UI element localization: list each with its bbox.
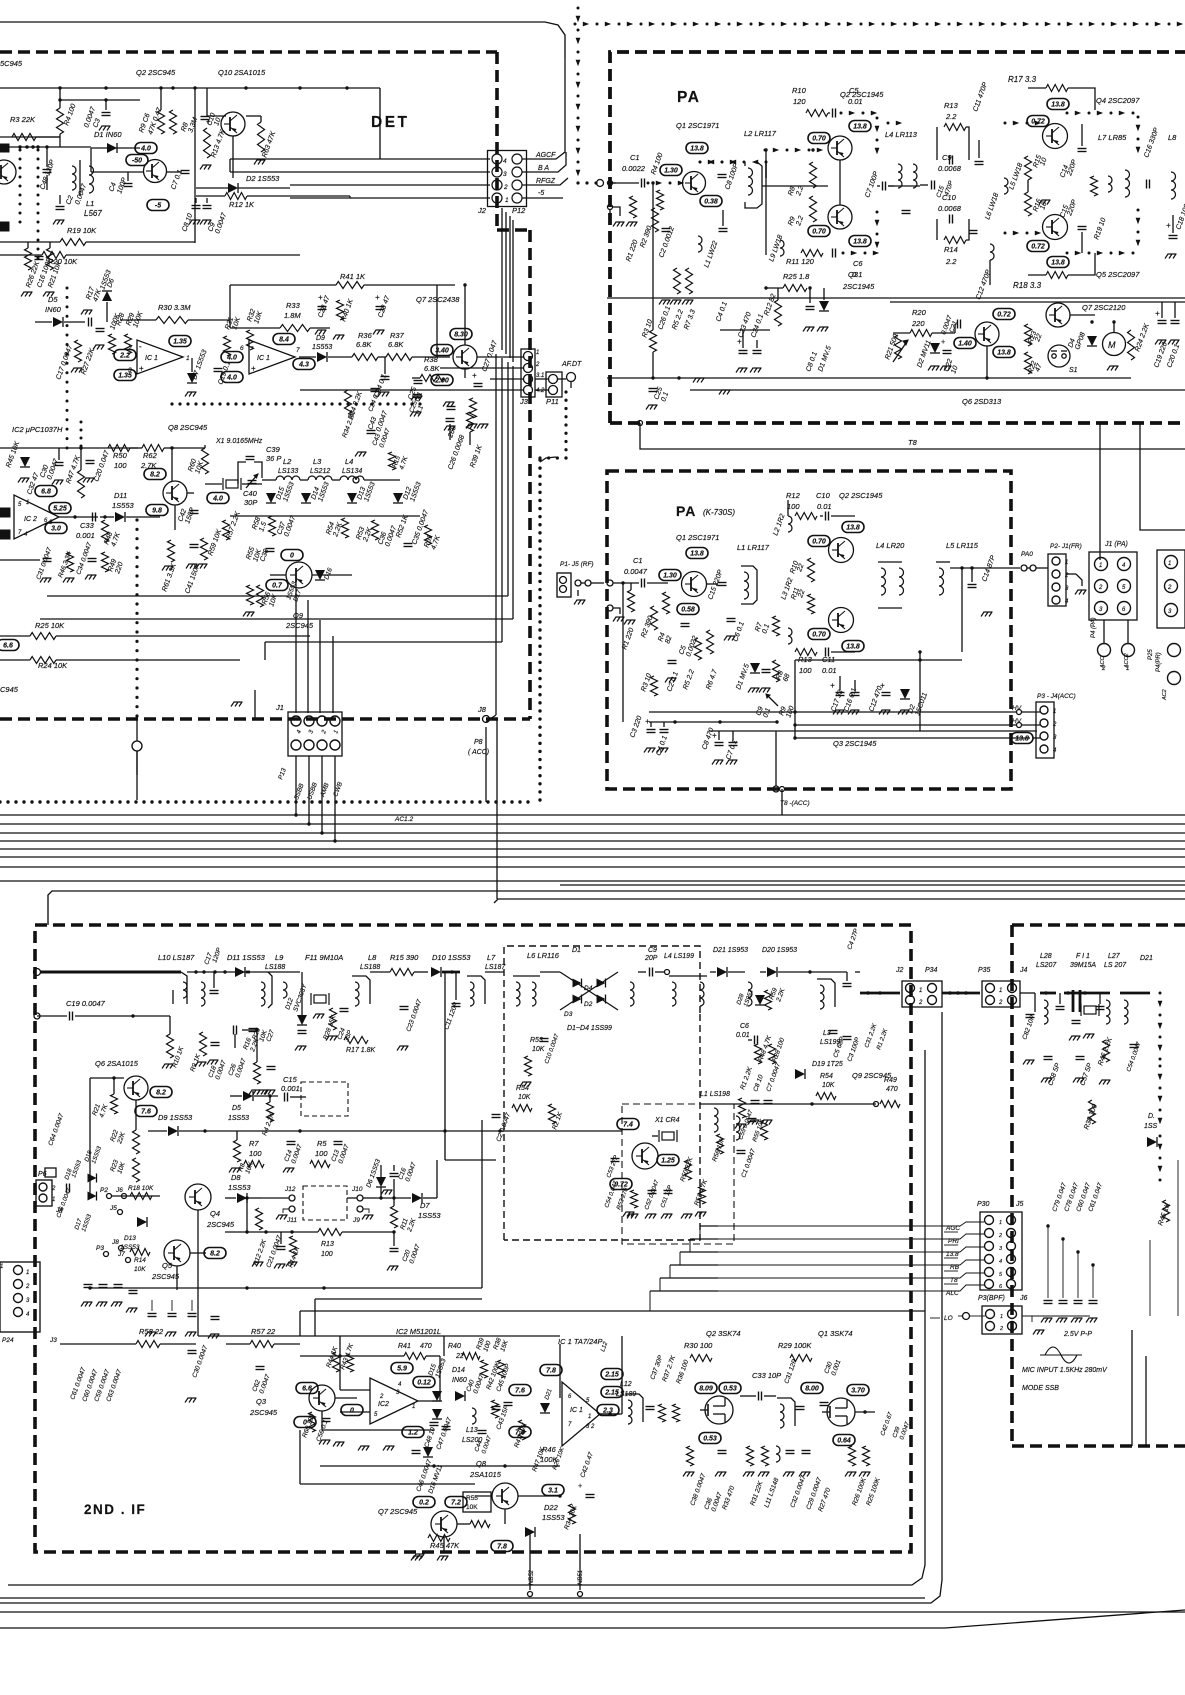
BPF block border bottom [1012, 1444, 1185, 1448]
res ladder fet [687, 1446, 694, 1466]
arrow to q5 [1004, 232, 1007, 235]
IC1 triangle [562, 1382, 600, 1446]
svg-text:D2 MV11: D2 MV11 [916, 339, 932, 368]
svg-text:AGCF: AGCF [535, 152, 556, 159]
svg-text:D19 1T25: D19 1T25 [812, 1061, 843, 1068]
DET block border right lower [528, 230, 532, 719]
svg-text:C32 47: C32 47 [26, 471, 41, 496]
svg-text:D1~D4 1SS99: D1~D4 1SS99 [567, 1025, 612, 1032]
svg-text:J3: J3 [49, 1337, 57, 1344]
svg-text:0.53: 0.53 [703, 1436, 717, 1443]
svg-text:2: 2 [1101, 666, 1106, 672]
svg-text:7.6: 7.6 [515, 1388, 525, 1395]
svg-text:2: 2 [321, 729, 328, 736]
arrow q4 out [1066, 112, 1069, 115]
wire bus [0, 814, 1185, 816]
svg-text:R36: R36 [358, 331, 373, 340]
svg-text:1S553: 1S553 [282, 481, 296, 503]
wire bus [0, 848, 1185, 850]
svg-text:AC1.2: AC1.2 [394, 816, 413, 823]
svg-text:268: 268 [447, 425, 458, 439]
value oval 1.30pa [660, 165, 682, 176]
connector J2 P12 [488, 151, 527, 207]
svg-text:1SS53: 1SS53 [81, 1213, 93, 1233]
value oval 31 [542, 1485, 564, 1496]
IC2 opamp [14, 495, 59, 539]
wire to J2 -5 [290, 195, 350, 197]
svg-text:8.4: 8.4 [279, 337, 289, 344]
diode D8b [237, 1193, 247, 1203]
tank L3if [820, 985, 824, 1009]
svg-text:-5: -5 [155, 203, 161, 210]
svg-text:0.0047: 0.0047 [258, 1373, 272, 1394]
svg-text:0: 0 [290, 553, 294, 560]
svg-text:J4: J4 [1019, 967, 1028, 974]
svg-text:+: + [375, 293, 380, 302]
value oval 070k2 [808, 629, 830, 640]
svg-text:LS212: LS212 [310, 468, 330, 475]
wire q6 col [89, 1078, 91, 1193]
value oval 8.4 [273, 334, 295, 345]
svg-text:Q10 2SA1015: Q10 2SA1015 [218, 68, 266, 77]
value oval 140 [954, 338, 976, 349]
svg-text:13.8: 13.8 [690, 146, 704, 153]
wire bus [0, 856, 1185, 858]
wire det top [0, 87, 230, 89]
svg-text:0.001: 0.001 [281, 1084, 300, 1093]
svg-text:R2 390: R2 390 [640, 615, 654, 639]
value oval 5.25 [49, 503, 71, 514]
wires P30 [718, 1222, 984, 1226]
svg-text:C8 100P: C8 100P [724, 162, 740, 190]
caps row left [84, 1284, 93, 1286]
svg-text:0.70: 0.70 [812, 632, 826, 639]
wire det right v [436, 285, 438, 357]
svg-text:LS188: LS188 [360, 964, 380, 971]
svg-text:GP08: GP08 [1074, 331, 1087, 350]
svg-text:P4(PR): P4(PR) [1156, 652, 1162, 672]
svg-text:0.0047: 0.0047 [624, 567, 648, 576]
svg-text:R37: R37 [390, 331, 405, 340]
wire pa long [607, 297, 1185, 299]
svg-text:0.001: 0.001 [830, 1359, 842, 1377]
wire bpf right col [1131, 1330, 1133, 1446]
svg-text:F I 1: F I 1 [1076, 953, 1090, 960]
gnd amp row [333, 1442, 336, 1447]
res pair pa [674, 268, 681, 294]
svg-text:1: 1 [1053, 709, 1056, 715]
IC2 triangle [370, 1378, 418, 1424]
svg-text:0.01: 0.01 [817, 502, 832, 511]
svg-text:C16 330P: C16 330P [1143, 127, 1160, 159]
svg-text:+: + [251, 364, 256, 373]
diode D11 [235, 967, 245, 977]
svg-text:8.09: 8.09 [699, 1386, 713, 1393]
svg-text:2.15: 2.15 [604, 1390, 619, 1397]
ring diodes [560, 972, 618, 1010]
wire long h642 [265, 641, 502, 643]
svg-text:Q7 2SC2120: Q7 2SC2120 [1082, 303, 1126, 312]
svg-text:R9 1K: R9 1K [189, 1053, 202, 1073]
wire fan stagger [650, 1290, 718, 1292]
wire det top ext [230, 87, 380, 89]
value oval 215a [601, 1369, 623, 1380]
wire down j1 [295, 580, 297, 713]
wire k mid [649, 721, 777, 723]
svg-text:Q1 2SC1971: Q1 2SC1971 [676, 533, 719, 542]
value oval 138d [1047, 99, 1069, 110]
value oval 053a [719, 1383, 741, 1394]
svg-text:C33 10P: C33 10P [752, 1371, 781, 1380]
svg-text:13.8: 13.8 [1015, 736, 1029, 743]
svg-text:RFGZ: RFGZ [536, 178, 556, 185]
svg-text:6.8K: 6.8K [424, 364, 440, 373]
svg-text:R3 10: R3 10 [640, 673, 653, 693]
svg-text:2SC945: 2SC945 [285, 621, 314, 630]
svg-text:0.01: 0.01 [736, 1032, 750, 1039]
value oval 2.2 [114, 350, 136, 361]
diode D10 [431, 967, 441, 977]
svg-text:LS207: LS207 [1036, 962, 1057, 969]
wire k q3line [709, 730, 1037, 732]
svg-text:R19 10: R19 10 [1093, 217, 1107, 241]
svg-text:D1 MV.5: D1 MV.5 [817, 345, 833, 373]
svg-text:C31 0.0047: C31 0.0047 [35, 546, 53, 580]
gnd k out [981, 612, 984, 617]
svg-text:P2- J1(FR): P2- J1(FR) [1050, 543, 1082, 550]
wire bus [0, 823, 1185, 825]
svg-text:3: 3 [1053, 735, 1057, 741]
PA block border [610, 52, 1185, 423]
wire amp h3 [322, 1429, 434, 1431]
value oval 4.0d [207, 493, 229, 504]
node T8 [638, 421, 643, 426]
svg-text:C42 0.47: C42 0.47 [579, 1451, 595, 1479]
wire misc right [1099, 423, 1101, 470]
svg-text:R18 10K: R18 10K [128, 1185, 154, 1192]
svg-text:+: + [830, 681, 835, 690]
svg-text:M: M [1108, 340, 1116, 350]
svg-text:R1 2.2K: R1 2.2K [739, 1066, 754, 1091]
svg-text:R10: R10 [792, 86, 807, 95]
svg-text:R2 390: R2 390 [639, 225, 653, 249]
value oval 070b [808, 226, 830, 237]
svg-text:C11 120P: C11 120P [443, 1001, 460, 1031]
svg-text:0.0022: 0.0022 [622, 164, 646, 173]
svg-text:R7: R7 [249, 1139, 259, 1148]
pin if left [34, 969, 41, 976]
svg-text:IC 1 TA7/24P: IC 1 TA7/24P [558, 1337, 602, 1346]
svg-text:R59 10K: R59 10K [207, 528, 223, 556]
value oval 072c [993, 309, 1015, 320]
svg-text:P25: P25 [1148, 649, 1154, 660]
svg-text:-: - [251, 342, 254, 351]
svg-text:470: 470 [886, 1086, 898, 1093]
wire shielded bus mid [0, 800, 2, 803]
wire det bottom v [254, 690, 256, 719]
terminal box [0, 144, 9, 152]
svg-text:T8: T8 [908, 438, 918, 447]
svg-text:D3: D3 [564, 1011, 573, 1018]
wire to J2 RFGZ [290, 184, 490, 186]
wire j1 bus drop [295, 800, 297, 815]
wire amp h2 [418, 1400, 440, 1402]
svg-text:IN60: IN60 [452, 1377, 467, 1384]
svg-text:D21 1S953: D21 1S953 [713, 947, 748, 954]
wire k t8 [775, 731, 777, 786]
wire if r20 [242, 1029, 257, 1031]
svg-text:R40 1K: R40 1K [340, 298, 355, 323]
svg-text:1.40: 1.40 [958, 341, 972, 348]
svg-text:3.70: 3.70 [851, 1388, 865, 1395]
svg-text:13.8: 13.8 [846, 644, 860, 651]
wire if x445 [444, 1000, 446, 1160]
svg-text:3: 3 [503, 171, 507, 178]
svg-text:100: 100 [114, 461, 127, 470]
diode D15 [266, 493, 276, 503]
arrow to q4 [1004, 122, 1007, 125]
svg-text:P3(BPF): P3(BPF) [978, 1295, 1005, 1302]
svg-text:0.0047: 0.0047 [234, 1057, 248, 1078]
wire q6 bottom [895, 377, 1131, 379]
svg-text:2: 2 [998, 1233, 1002, 1239]
svg-text:-50: -50 [132, 158, 142, 165]
svg-text:+: + [941, 339, 945, 346]
svg-text:4: 4 [398, 1382, 402, 1388]
svg-text:5: 5 [374, 1412, 378, 1418]
svg-text:C18 1000: C18 1000 [1175, 200, 1185, 231]
wire k h1 [795, 659, 962, 661]
svg-text:D9: D9 [316, 335, 325, 342]
wire bottom rail3 [0, 1012, 942, 1603]
svg-text:C30 0.0047: C30 0.0047 [191, 1344, 209, 1378]
svg-text:J8: J8 [477, 705, 487, 714]
svg-text:R54: R54 [820, 1073, 833, 1080]
svg-text:2: 2 [1052, 722, 1057, 728]
coil L3 [308, 476, 332, 480]
wire p35 out [1020, 992, 1035, 994]
wire if chain [187, 971, 300, 973]
wire pa h3 [607, 182, 612, 184]
wire q8 links [475, 1495, 492, 1497]
wire q9 row [312, 574, 352, 576]
tank L4 pin [353, 477, 359, 483]
svg-text:6.8K: 6.8K [356, 340, 372, 349]
svg-text:C3 220: C3 220 [629, 715, 643, 739]
value oval 138b [849, 121, 871, 132]
DET block border bottom [0, 717, 530, 721]
svg-text:R33 470: R33 470 [721, 1485, 736, 1511]
coil L7if [470, 982, 474, 1006]
wire if long y1311 [300, 1310, 925, 1312]
svg-text:R17 3.3: R17 3.3 [1008, 75, 1037, 84]
svg-text:R11 120: R11 120 [786, 257, 815, 266]
svg-text:2.90: 2.90 [434, 378, 449, 385]
capacitor c17if [210, 990, 219, 992]
wire long h619 [40, 618, 513, 620]
caps row p24b [148, 1313, 157, 1315]
svg-text:0.70: 0.70 [812, 229, 826, 236]
svg-text:R62: R62 [143, 451, 158, 460]
svg-text:D10 1SS53: D10 1SS53 [432, 953, 471, 962]
svg-text:5SBB: 5SBB [293, 782, 305, 801]
svg-text:C8 10: C8 10 [752, 1074, 765, 1093]
svg-text:D.: D. [1148, 1113, 1155, 1120]
svg-text:L1: L1 [86, 199, 94, 208]
IC2 pin boxes [0, 508, 10, 517]
svg-text:D5: D5 [48, 295, 58, 304]
DET block border right upper [495, 52, 499, 230]
svg-text:Q6 2SA1015: Q6 2SA1015 [95, 1059, 139, 1068]
arrow top q2 [840, 112, 843, 115]
svg-text:7.6: 7.6 [515, 1430, 525, 1437]
wire bus [0, 832, 1185, 834]
svg-text:L27: L27 [1108, 953, 1121, 960]
svg-text:D21: D21 [544, 1388, 553, 1400]
inner dashed box B [622, 1104, 734, 1244]
svg-text:R54: R54 [516, 1085, 529, 1092]
svg-text:J5: J5 [109, 1205, 117, 1212]
value oval 072if [610, 1179, 632, 1190]
svg-text:1: 1 [1126, 666, 1129, 672]
svg-text:2SC1945: 2SC1945 [842, 282, 875, 291]
svg-text:R45 47K: R45 47K [430, 1541, 460, 1550]
svg-text:1SS: 1SS [1144, 1123, 1158, 1130]
gnd q7 [411, 1556, 414, 1561]
svg-text:6.8K: 6.8K [388, 340, 404, 349]
wire k h2 [649, 711, 795, 713]
wire pa h1 [762, 185, 828, 187]
svg-text:470: 470 [420, 1343, 432, 1350]
svg-text:4.3: 4.3 [298, 362, 309, 369]
svg-text:1SS53: 1SS53 [91, 1145, 103, 1165]
value oval 82if [150, 1087, 172, 1098]
svg-text:13.8: 13.8 [853, 124, 867, 131]
svg-text:C27: C27 [265, 1029, 276, 1043]
svg-text:R18 3.3: R18 3.3 [1013, 281, 1042, 290]
tank L10 [183, 982, 187, 998]
value oval 800 [801, 1383, 823, 1394]
svg-text:R14: R14 [944, 245, 958, 254]
wire nb [529, 1532, 531, 1590]
wire pa v2 [652, 352, 654, 378]
wire q2 base [90, 148, 92, 172]
svg-text:47K 0.47: 47K 0.47 [147, 106, 164, 136]
svg-text:C66 0.0047: C66 0.0047 [56, 1187, 72, 1219]
svg-text:P2: P2 [100, 1187, 108, 1194]
value oval 130k [659, 570, 681, 581]
svg-text:R15 390: R15 390 [390, 953, 419, 962]
coil L8if [355, 982, 359, 1006]
svg-text:5: 5 [18, 502, 22, 508]
svg-text:R12: R12 [786, 491, 801, 500]
svg-text:L8: L8 [368, 953, 377, 962]
coil L4b [672, 982, 676, 1006]
svg-text:4: 4 [296, 729, 303, 735]
wire q2 v [839, 160, 841, 205]
switch S1 [1048, 345, 1070, 367]
opamp IC1a [137, 340, 183, 374]
svg-text:+: + [578, 1483, 582, 1490]
wire bundle down [501, 208, 503, 350]
svg-text:0.01: 0.01 [822, 666, 837, 675]
svg-text:AF.DT: AF.DT [561, 361, 582, 368]
value oval 82q5 [204, 1248, 226, 1259]
node j1 bus dots [294, 813, 297, 816]
svg-text:7: 7 [296, 347, 300, 354]
svg-text:22: 22 [797, 589, 807, 600]
svg-text:10K: 10K [518, 1094, 531, 1101]
svg-text:J9: J9 [352, 1217, 360, 1224]
value oval -50 [126, 155, 148, 166]
svg-text:0.2: 0.2 [419, 1500, 429, 1507]
inner dashed box [504, 946, 700, 1240]
svg-text:C7 0.0047: C7 0.0047 [765, 1062, 782, 1093]
svg-text:10K: 10K [532, 1046, 545, 1053]
svg-text:0.1: 0.1 [852, 270, 862, 279]
coil L10b [201, 982, 205, 1006]
value oval 072b [1027, 241, 1049, 252]
svg-text:R12 1K: R12 1K [229, 200, 255, 209]
svg-text:Q4 2SC2097: Q4 2SC2097 [1096, 96, 1140, 105]
svg-text:P24: P24 [2, 1337, 14, 1344]
mixer dashed box A [301, 1082, 348, 1116]
svg-text:1: 1 [999, 988, 1002, 994]
svg-text:0.0047: 0.0047 [214, 211, 228, 235]
svg-text:PA: PA [677, 89, 700, 106]
wire pa long2 [890, 301, 1185, 303]
svg-text:Q3: Q3 [256, 1397, 267, 1406]
value oval 78b [540, 1365, 562, 1376]
wire ic2 out [59, 516, 98, 518]
svg-text:J1: J1 [275, 703, 284, 712]
wire det drop2 [485, 727, 487, 802]
coil D21r [1124, 1000, 1128, 1024]
wire if mid [700, 1103, 876, 1105]
coil ring out [630, 982, 634, 1006]
wire bot bus [198, 1335, 560, 1337]
svg-text:C31 2.2K: C31 2.2K [864, 1022, 879, 1048]
svg-text:R40: R40 [448, 1343, 461, 1350]
inductor L1 L567 [72, 166, 76, 190]
wire right col [1159, 1196, 1161, 1316]
wire to J2 AGCF [230, 158, 490, 160]
svg-text:R5: R5 [317, 1139, 327, 1148]
svg-text:X1 9.0165MHz: X1 9.0165MHz [215, 438, 263, 445]
svg-text:IN60: IN60 [45, 305, 62, 314]
svg-text:22: 22 [1034, 333, 1044, 344]
value oval 138k3 [842, 641, 864, 652]
svg-text:7.4: 7.4 [623, 1122, 633, 1129]
svg-text:J12: J12 [284, 1186, 296, 1193]
node input PA [576, 181, 579, 184]
svg-text:C8 10: C8 10 [181, 213, 194, 233]
svg-text:7: 7 [568, 1422, 572, 1428]
wire bundle v2 [501, 358, 503, 642]
svg-text:1SS53: 1SS53 [434, 1358, 447, 1379]
svg-text:15C011: 15C011 [914, 692, 929, 717]
wire bus [0, 880, 1185, 882]
svg-text:+: + [645, 717, 650, 726]
capacitor C26c cap [447, 406, 456, 408]
transistor Q6if [124, 1076, 148, 1100]
svg-text:2ND . IF: 2ND . IF [84, 1502, 146, 1517]
svg-text:150P: 150P [184, 507, 196, 525]
svg-text:L2 LR117: L2 LR117 [744, 129, 777, 138]
svg-text:4.0: 4.0 [226, 355, 237, 362]
svg-text:0.0047: 0.0047 [404, 1161, 418, 1182]
wire pa gnd row [693, 378, 696, 383]
